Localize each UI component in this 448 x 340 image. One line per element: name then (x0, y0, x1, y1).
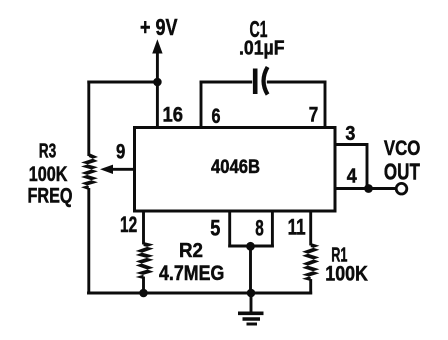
svg-text:7: 7 (309, 103, 319, 127)
svg-text:8: 8 (255, 215, 263, 240)
svg-text:12: 12 (120, 212, 137, 237)
svg-text:5: 5 (210, 215, 220, 240)
svg-text:100K: 100K (325, 262, 368, 285)
svg-text:4: 4 (347, 164, 358, 187)
svg-text:16: 16 (163, 103, 184, 127)
svg-text:11: 11 (288, 215, 306, 240)
svg-text:6: 6 (212, 104, 221, 128)
svg-text:+ 9V: + 9V (140, 14, 178, 40)
svg-text:.01µF: .01µF (239, 37, 285, 60)
svg-text:R3: R3 (39, 140, 57, 163)
svg-text:FREQ: FREQ (28, 185, 73, 208)
svg-text:4.7MEG: 4.7MEG (159, 262, 224, 285)
svg-text:3: 3 (345, 122, 355, 145)
svg-text:100K: 100K (29, 163, 68, 186)
svg-text:OUT: OUT (384, 158, 420, 184)
svg-text:9: 9 (116, 140, 125, 164)
svg-text:R2: R2 (179, 239, 203, 262)
svg-text:4046B: 4046B (211, 156, 260, 178)
svg-text:VCO: VCO (384, 137, 421, 160)
